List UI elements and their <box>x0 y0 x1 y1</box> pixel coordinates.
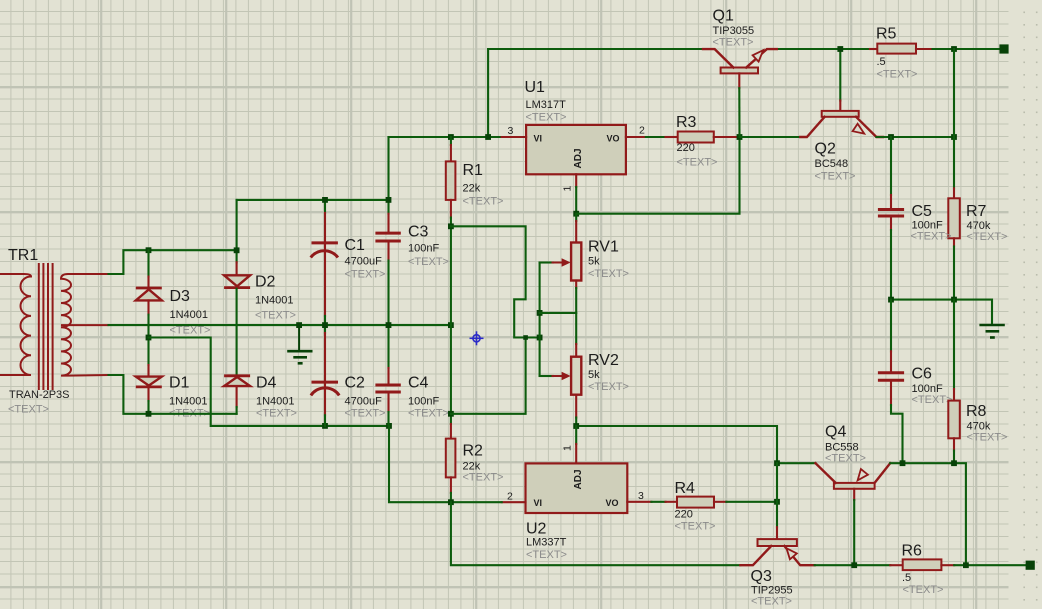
junction Q2 base at rail <box>837 46 843 52</box>
svg-text:U2: U2 <box>526 521 547 538</box>
junction wiper column y=337.5 <box>537 335 543 341</box>
wire: bridge RV1 bottom <box>540 312 577 314</box>
junction U1 ADJ node <box>573 211 579 217</box>
wire: RV2 bottom / U2 ADJ node to Q3 base column <box>576 426 777 463</box>
svg-text:3: 3 <box>508 125 514 137</box>
svg-text:1N4001: 1N4001 <box>255 295 294 307</box>
wire: RV1 bottom to RV2 top <box>575 288 577 344</box>
junction R4 / Q3 base <box>774 499 780 505</box>
svg-text:D2: D2 <box>255 274 276 291</box>
svg-text:RV1: RV1 <box>588 239 619 256</box>
svg-text:<TEXT>: <TEXT> <box>967 432 1008 444</box>
wire: secondary top to diode row (net AC1) <box>109 250 237 274</box>
wire: +DC rail from bridge to C1/C3 <box>237 199 389 201</box>
svg-text:TIP3055: TIP3055 <box>713 25 755 37</box>
svg-text:TR1: TR1 <box>8 247 38 264</box>
junction C1 top <box>322 197 328 203</box>
junction C3/C4 <box>386 322 392 328</box>
ground (right) <box>979 325 1004 338</box>
svg-text:5k: 5k <box>588 256 600 268</box>
svg-text:C6: C6 <box>912 366 933 383</box>
svg-text:<TEXT>: <TEXT> <box>751 596 792 608</box>
resistor R7 470k <box>948 188 960 299</box>
svg-text:<TEXT>: <TEXT> <box>967 231 1008 243</box>
junction C4 bottom corner <box>386 423 392 429</box>
wire: bottom -V rail <box>815 564 891 566</box>
svg-text:Q4: Q4 <box>825 424 846 441</box>
wire: C5/C6 midpoint line to ground <box>891 300 992 324</box>
junction C3 top <box>386 197 392 203</box>
svg-text:220: 220 <box>675 509 693 521</box>
wire: top +V rail <box>488 48 703 50</box>
junction C6 drop <box>900 460 906 466</box>
junction C5 top <box>888 134 894 140</box>
svg-text:C3: C3 <box>408 224 429 241</box>
capacitor C6 100nF <box>878 300 904 464</box>
svg-text:<TEXT>: <TEXT> <box>526 112 567 124</box>
wire: U1 VI line y=137 <box>389 136 502 138</box>
svg-text:C2: C2 <box>345 375 366 392</box>
resistor R5 .5 <box>870 44 931 54</box>
svg-text:<TEXT>: <TEXT> <box>463 472 504 484</box>
svg-text:Q3: Q3 <box>751 568 772 585</box>
svg-text:LM317T: LM317T <box>526 99 567 111</box>
junction wiper column y=312.9 <box>537 310 543 316</box>
pin 1 stub of U2 <box>575 426 577 444</box>
wire: rail sense drop x=954 <box>953 49 955 188</box>
svg-text:<TEXT>: <TEXT> <box>825 453 866 465</box>
wire: D3 bottom to D1 top <box>147 315 149 365</box>
capacitor C3 100nF <box>375 137 400 325</box>
potentiometer RV2 5k <box>540 357 582 426</box>
resistor R2 22k <box>446 424 456 502</box>
svg-text:1N4001: 1N4001 <box>170 309 209 321</box>
junction C5/C6 <box>888 297 894 303</box>
junction D3/D1 tap <box>146 335 152 341</box>
junction R8 bottom <box>951 460 957 466</box>
junction R3 / Q1 base <box>737 134 743 140</box>
svg-text:VO: VO <box>607 134 620 144</box>
node marker (blue crosshair) <box>470 331 484 345</box>
svg-text:Q1: Q1 <box>713 8 734 25</box>
transistor Q2 BC548 <box>740 49 955 137</box>
svg-text:4700uF: 4700uF <box>345 256 383 268</box>
svg-text:<TEXT>: <TEXT> <box>677 157 718 169</box>
svg-text:LM337T: LM337T <box>526 537 567 549</box>
svg-text:<TEXT>: <TEXT> <box>877 69 918 81</box>
svg-text:<TEXT>: <TEXT> <box>255 310 296 322</box>
svg-text:R3: R3 <box>676 114 697 131</box>
pin 3 stub of U1 <box>502 136 526 138</box>
diode D2 <box>224 275 250 374</box>
regulator U2 LM337T <box>526 463 628 513</box>
junction R7/R8 column <box>951 297 957 303</box>
svg-text:5k: 5k <box>588 369 600 381</box>
wire: U1 ADJ to Q1 base column <box>576 137 739 214</box>
svg-text:R7: R7 <box>966 203 987 220</box>
transformer TR1 <box>0 263 109 390</box>
resistor R1 22k <box>446 137 456 218</box>
svg-text:<TEXT>: <TEXT> <box>588 381 629 393</box>
svg-text:ADJ: ADJ <box>573 469 584 489</box>
svg-text:<TEXT>: <TEXT> <box>713 37 754 49</box>
svg-text:4700uF: 4700uF <box>345 396 383 408</box>
svg-text:100nF: 100nF <box>408 243 439 255</box>
junction rail sense drop <box>951 134 957 140</box>
resistor R6 .5 <box>890 559 1025 570</box>
svg-text:.5: .5 <box>877 56 886 68</box>
capacitor C5 100nF <box>878 137 904 300</box>
svg-text:1: 1 <box>562 445 574 451</box>
transistor Q1 TIP3055 <box>703 49 777 137</box>
svg-text:U1: U1 <box>525 79 546 96</box>
junction y=413.8 tap <box>448 411 454 417</box>
junction Q4 base at bottom rail <box>851 562 857 568</box>
capacitor C2 4700uF <box>311 325 339 426</box>
svg-text:VI: VI <box>534 498 543 508</box>
svg-text:R6: R6 <box>902 543 923 560</box>
svg-text:R8: R8 <box>966 403 987 420</box>
svg-text:R4: R4 <box>675 480 696 497</box>
svg-text:VO: VO <box>606 498 619 508</box>
regulator U1 LM317T <box>526 125 626 174</box>
terminal +V output <box>999 44 1008 53</box>
svg-text:2: 2 <box>639 125 645 137</box>
wire: -V internal rail down and right to Q3 collector <box>451 502 741 565</box>
junction 0V at R1/R2 column <box>448 322 454 328</box>
junction at x=236.6 y=250.2 <box>234 247 240 253</box>
svg-text:R1: R1 <box>463 162 484 179</box>
svg-text:1N4001: 1N4001 <box>169 396 208 408</box>
svg-text:ADJ: ADJ <box>573 148 584 168</box>
svg-text:1: 1 <box>562 186 574 192</box>
svg-text:<TEXT>: <TEXT> <box>408 256 449 268</box>
capacitor C4 100nF <box>375 325 400 426</box>
svg-text:C5: C5 <box>912 203 933 220</box>
junction R2 bottom at U2 VI line <box>448 499 454 505</box>
pin 1 stub of U1 <box>575 174 577 187</box>
svg-text:<TEXT>: <TEXT> <box>911 231 952 243</box>
svg-text:<TEXT>: <TEXT> <box>345 269 386 281</box>
svg-text:<TEXT>: <TEXT> <box>345 408 386 420</box>
svg-text:<TEXT>: <TEXT> <box>815 171 856 183</box>
svg-text:22k: 22k <box>463 183 481 195</box>
junction ground stem <box>296 322 302 328</box>
junction U2 ADJ node <box>573 423 579 429</box>
wire: divider tap staircase to pot chain <box>451 226 540 337</box>
svg-text:<TEXT>: <TEXT> <box>8 404 49 416</box>
svg-text:220: 220 <box>677 142 695 154</box>
svg-text:<TEXT>: <TEXT> <box>170 325 211 337</box>
svg-text:D4: D4 <box>256 375 277 392</box>
svg-text:<TEXT>: <TEXT> <box>408 408 449 420</box>
pin 3 stub of U2 <box>627 501 651 503</box>
junction rail drop <box>485 134 491 140</box>
svg-text:<TEXT>: <TEXT> <box>588 268 629 280</box>
junction R1 top <box>448 134 454 140</box>
transistor Q4 BC558 <box>777 463 966 565</box>
capacitor C1 4700uF <box>311 200 338 325</box>
pin 2 stub of U2 <box>502 501 526 503</box>
junction rail after R5 <box>951 46 957 52</box>
wire: R1 bottom to R2 top column <box>450 218 452 424</box>
svg-text:<TEXT>: <TEXT> <box>912 394 953 406</box>
svg-text:D1: D1 <box>169 375 190 392</box>
svg-text:R2: R2 <box>463 443 484 460</box>
ground <box>287 325 312 363</box>
junction divider tap y=226.3 <box>448 223 454 229</box>
svg-text:Q2: Q2 <box>815 141 836 158</box>
resistor R4 220 <box>651 497 777 508</box>
wire: RV1 wiper column <box>539 263 541 377</box>
svg-text:<TEXT>: <TEXT> <box>675 521 716 533</box>
wire: vertical x=236.6 from +rail corner down to D2 <box>236 200 238 262</box>
wire: 0V center-tap line <box>109 324 451 326</box>
svg-text:<TEXT>: <TEXT> <box>256 408 297 420</box>
junction C2 bottom <box>322 423 328 429</box>
wire: secondary bottom lead to AC2 row <box>109 375 237 414</box>
junction staircase at pot link <box>523 335 528 340</box>
svg-text:.5: .5 <box>902 572 911 584</box>
terminal -V output <box>1026 561 1035 570</box>
junction C1/C2 <box>322 322 328 328</box>
wire: rail drop to U1 VI line <box>487 49 489 137</box>
svg-text:C1: C1 <box>345 237 366 254</box>
svg-text:<TEXT>: <TEXT> <box>526 549 567 561</box>
diode D1 <box>136 377 162 414</box>
potentiometer RV1 5k <box>540 214 582 288</box>
svg-text:2: 2 <box>507 491 513 503</box>
svg-text:1N4001: 1N4001 <box>256 396 295 408</box>
diode D3 <box>136 250 162 315</box>
junction at D3 top <box>146 247 152 253</box>
svg-text:C4: C4 <box>408 375 429 392</box>
diode D4 <box>224 376 250 414</box>
resistor R8 470k <box>948 300 960 464</box>
svg-text:<TEXT>: <TEXT> <box>903 584 944 596</box>
svg-text:100nF: 100nF <box>408 396 439 408</box>
svg-text:D3: D3 <box>170 288 191 305</box>
junction at D1 bottom <box>146 411 152 417</box>
pin 2 stub of U1 <box>626 136 646 138</box>
svg-text:RV2: RV2 <box>588 352 619 369</box>
junction Q4 collector line <box>774 460 780 466</box>
svg-text:3: 3 <box>638 490 644 502</box>
wire: pot chain link down to y=413.8 <box>451 338 526 414</box>
svg-text:R5: R5 <box>876 26 897 43</box>
transistor Q3 TIP2955 <box>740 463 814 565</box>
wire: C2/C4 bottom rail down to U2 VI <box>389 426 502 502</box>
wire: D3/D1 tap to C2 bottom rail <box>149 338 390 426</box>
svg-text:VI: VI <box>534 134 543 144</box>
svg-text:TRAN-2P3S: TRAN-2P3S <box>9 389 70 401</box>
svg-text:BC548: BC548 <box>815 158 849 170</box>
resistor R3 220 <box>646 132 740 143</box>
svg-text:<TEXT>: <TEXT> <box>463 196 504 208</box>
junction R6 right <box>963 562 969 568</box>
